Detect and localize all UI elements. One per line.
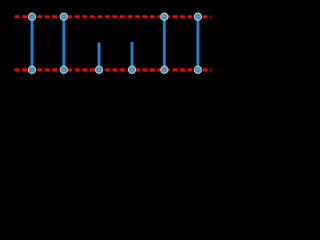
node N10 (bottom of W6) (194, 66, 201, 73)
wire W5 (163, 17, 166, 70)
node N6 (bottom of W2) (60, 66, 67, 73)
wire W3 (98, 42, 101, 69)
node N1 (top of W1) (28, 13, 35, 20)
wire W2 (62, 17, 65, 70)
node N2 (top of W2) (60, 13, 67, 20)
wire W6 (196, 17, 199, 70)
node N9 (bottom of W5) (161, 66, 168, 73)
top bus rail (red dashed) (15, 15, 211, 18)
bottom bus rail (red dashed) (15, 68, 211, 71)
wire W4 (131, 42, 134, 70)
wire W1 (31, 17, 34, 70)
node N3 (top of W5) (161, 13, 168, 20)
node N8 (bottom of W4) (128, 66, 135, 73)
node N4 (top of W6) (194, 13, 201, 20)
node N5 (bottom of W1) (28, 66, 35, 73)
node N7 (bottom of W3) (95, 66, 102, 73)
